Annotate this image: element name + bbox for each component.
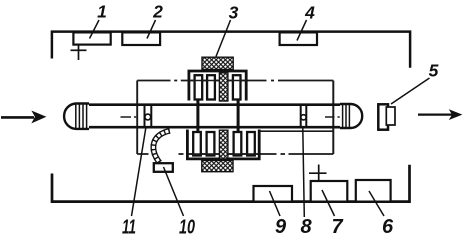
svg-text:10: 10 <box>179 217 195 239</box>
svg-text:11: 11 <box>122 217 136 239</box>
svg-text:2: 2 <box>152 2 163 22</box>
svg-text:5: 5 <box>429 61 439 81</box>
svg-text:7: 7 <box>331 216 343 238</box>
svg-text:3: 3 <box>229 3 239 23</box>
svg-text:6: 6 <box>382 216 394 238</box>
svg-text:1: 1 <box>97 2 107 22</box>
svg-text:8: 8 <box>300 216 312 238</box>
svg-text:4: 4 <box>304 3 315 23</box>
svg-text:9: 9 <box>275 216 287 238</box>
